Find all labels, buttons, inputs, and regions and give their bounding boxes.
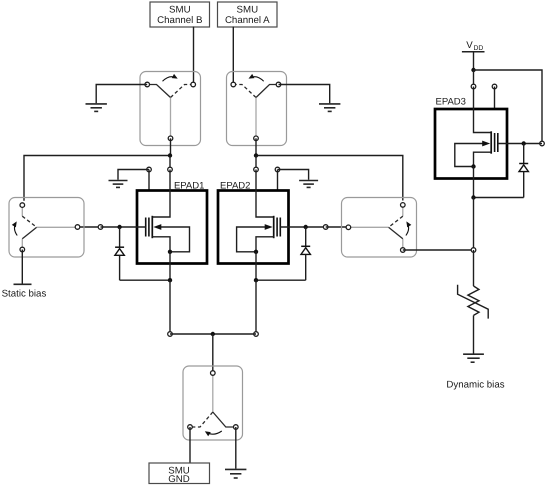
transistor M2 body lead with arrow xyxy=(237,224,273,252)
dynamic bias terminal circle xyxy=(471,248,476,253)
transistor M1 source lead xyxy=(152,237,170,252)
wire D2 anode to EPAD2 source node xyxy=(256,279,306,281)
transistor M3 drain lead xyxy=(474,87,491,133)
ground at dynamic bias xyxy=(463,354,484,362)
svg-text:V: V xyxy=(466,40,473,51)
wire VDD down to EPAD3 drain terminal xyxy=(473,70,475,87)
switch S4 (static bias relay, left) xyxy=(9,198,84,258)
VDD supply symbol xyxy=(462,40,485,70)
common force node dot xyxy=(211,332,215,336)
wire M2 source down out of EPAD2 xyxy=(255,252,257,280)
M1 source-body junction dot xyxy=(168,250,172,254)
svg-text:Channel B: Channel B xyxy=(157,15,202,26)
EPAD2 source node dot xyxy=(254,278,258,282)
transistor M2 channel bar xyxy=(273,216,275,238)
wire node down to switch S3 xyxy=(212,334,214,373)
wire switch S1 common down to node xyxy=(170,138,172,155)
wire node row to left switch S4 xyxy=(24,156,170,201)
wire SMU Channel A to switch S2 xyxy=(232,27,234,85)
transistor M1 drain lead xyxy=(153,170,170,218)
wire EPAD2 gate to probe terminal xyxy=(280,226,325,228)
wire M3 source down out of EPAD3 xyxy=(473,167,475,198)
wire probe terminal to right switch xyxy=(326,226,349,228)
transistor M1 gate bars xyxy=(145,218,147,237)
EPAD3 shield terminal circle xyxy=(492,84,497,89)
EPAD2 box xyxy=(218,191,289,264)
wire S5 to dynamic bias node xyxy=(403,249,474,251)
force terminal circle right xyxy=(254,332,259,337)
svg-text:SMU: SMU xyxy=(169,5,191,16)
EPAD2 drain terminal circle xyxy=(254,167,259,172)
wire EPAD3 gate to feed terminal xyxy=(498,143,542,145)
transistor M3 body lead with arrow xyxy=(455,141,490,167)
transistor M3 gate bars xyxy=(494,133,496,152)
wire node down to EPAD1 drain terminal xyxy=(169,156,171,170)
wire EPAD3 source node down xyxy=(473,198,475,251)
wire S3 to SMU GND box xyxy=(189,427,191,463)
wire D1 anode to EPAD1 source node xyxy=(120,279,170,281)
SMU Channel A box xyxy=(218,2,278,27)
switch S1 (SMU Channel B relay) xyxy=(140,72,201,146)
force terminal circle left xyxy=(168,332,173,337)
node dot below S2 xyxy=(254,153,258,157)
transistor M2 gate bars xyxy=(276,218,278,237)
wire joining force terminals xyxy=(170,333,256,335)
EPAD1 shield terminal circle xyxy=(147,167,152,172)
EPAD2 gate node dot xyxy=(304,225,308,229)
wire gate terminal to EPAD1 gate xyxy=(101,226,146,228)
wire EPAD3 shield terminal to box xyxy=(494,87,496,110)
switch S3 (SMU GND relay, bottom) xyxy=(183,366,243,440)
transistor M1 channel bar xyxy=(151,216,153,238)
EPAD3 gate feed terminal circle xyxy=(540,141,545,146)
svg-text:SMU: SMU xyxy=(237,5,259,16)
diode D1 at EPAD1 gate xyxy=(115,227,124,280)
wire EPAD2 shield terminal to box xyxy=(277,170,279,191)
transistor M1 body lead with arrow xyxy=(153,224,189,252)
EPAD1 source node dot xyxy=(168,278,172,282)
ground at EPAD1 shield xyxy=(109,170,150,188)
wire D3 anode to EPAD3 source node xyxy=(474,197,524,199)
wire switch S2 common down to node xyxy=(255,138,257,155)
wire SMU Channel B to switch S1 xyxy=(193,27,195,85)
transistor M2 source lead xyxy=(256,237,274,252)
transistor M3 channel bar xyxy=(490,131,492,153)
wire node down to EPAD2 drain terminal xyxy=(255,156,257,170)
ground at EPAD2 shield xyxy=(278,170,319,188)
VDD node dot xyxy=(471,68,475,72)
SMU GND box xyxy=(149,463,210,485)
transistor M2 drain lead xyxy=(256,170,273,218)
ground at switch S3 right xyxy=(225,427,246,478)
svg-text:GND: GND xyxy=(168,474,190,485)
wire R1 to ground xyxy=(473,315,475,353)
wire EPAD1 shield terminal to box xyxy=(148,170,150,191)
switch S2 (SMU Channel A relay) xyxy=(227,72,287,146)
wire M1 source down out of EPAD1 xyxy=(169,252,171,280)
static bias terminal xyxy=(14,250,32,285)
EPAD3 box xyxy=(435,109,507,179)
resistor R1 (adjustable) xyxy=(458,285,489,319)
wire node row to right switch S5 xyxy=(256,156,403,201)
ground at switch S2 right xyxy=(279,85,341,112)
EPAD3 drain terminal circle xyxy=(471,84,476,89)
EPAD3 gate node dot xyxy=(522,141,526,145)
EPAD1 gate node dot xyxy=(117,225,121,229)
wire from left switch to EPAD1 gate terminal xyxy=(78,226,101,228)
EPAD1 box xyxy=(137,191,207,264)
M2 source-body junction dot xyxy=(254,250,258,254)
EPAD2 gate probe terminal circle xyxy=(323,225,328,230)
EPAD1 drain terminal circle xyxy=(168,167,173,172)
wire EPAD2 source node down xyxy=(255,280,257,334)
M3 source-body junction dot xyxy=(471,164,475,168)
EPAD1 gate probe terminal circle xyxy=(98,225,103,230)
transistor M3 source lead xyxy=(474,152,492,166)
wire EPAD1 source node down xyxy=(169,280,171,334)
diode D3 at EPAD3 gate xyxy=(519,144,528,198)
diode D2 at EPAD2 gate xyxy=(301,227,310,280)
svg-text:Dynamic bias: Dynamic bias xyxy=(446,380,504,391)
node dot below S1 xyxy=(168,153,172,157)
wire VDD branch right and down to gate terminal xyxy=(474,70,543,144)
EPAD3 source node dot xyxy=(471,195,475,199)
SMU Channel B box xyxy=(150,2,210,27)
svg-text:EPAD3: EPAD3 xyxy=(436,96,466,107)
switch S5 (dynamic bias relay, right) xyxy=(342,198,417,258)
svg-text:DD: DD xyxy=(474,45,484,52)
svg-text:Static bias: Static bias xyxy=(2,289,47,300)
ground at switch S1 left xyxy=(86,85,148,112)
wire terminal down to resistor R1 xyxy=(473,250,475,286)
EPAD2 shield terminal circle xyxy=(275,167,280,172)
svg-text:Channel A: Channel A xyxy=(225,15,270,26)
